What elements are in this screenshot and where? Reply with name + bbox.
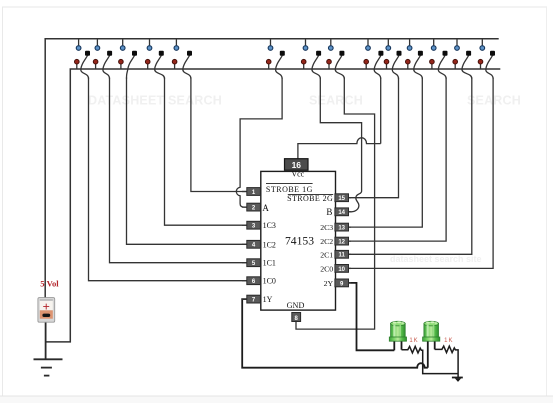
svg-text:1C3: 1C3 — [263, 221, 276, 230]
svg-text:1C2: 1C2 — [263, 240, 276, 249]
svg-text:12: 12 — [338, 240, 345, 246]
svg-text:16: 16 — [292, 160, 302, 170]
svg-text:1K: 1K — [409, 338, 418, 344]
svg-text:GND: GND — [287, 301, 305, 310]
svg-text:B: B — [326, 207, 332, 217]
svg-text:11: 11 — [339, 253, 346, 259]
svg-text:SEARCH: SEARCH — [309, 94, 363, 108]
svg-text:5 Vol: 5 Vol — [40, 278, 59, 288]
svg-text:15: 15 — [338, 196, 345, 202]
svg-text:2C1: 2C1 — [320, 250, 333, 259]
svg-text:2C2: 2C2 — [320, 237, 333, 246]
svg-text:STROBE 1G: STROBE 1G — [266, 185, 313, 194]
svg-text:SEARCH: SEARCH — [467, 94, 521, 108]
svg-text:2C0: 2C0 — [320, 264, 333, 273]
svg-text:1K: 1K — [444, 338, 453, 344]
svg-text:2C3: 2C3 — [320, 223, 333, 232]
svg-text:A: A — [262, 203, 269, 213]
svg-text:1Y: 1Y — [263, 295, 273, 304]
svg-text:14: 14 — [338, 210, 345, 216]
svg-text:Vcc: Vcc — [291, 169, 304, 178]
svg-text:+: + — [42, 299, 49, 314]
svg-text:74153: 74153 — [285, 234, 314, 247]
svg-text:2Y: 2Y — [324, 279, 334, 288]
svg-text:DATASHEET SEARCH: DATASHEET SEARCH — [88, 94, 222, 108]
svg-text:datasheet search site: datasheet search site — [390, 254, 482, 264]
svg-text:13: 13 — [338, 226, 345, 232]
svg-text:10: 10 — [338, 267, 345, 273]
svg-text:1C1: 1C1 — [263, 259, 276, 268]
svg-text:1C0: 1C0 — [263, 277, 276, 286]
svg-text:STROBE 2G: STROBE 2G — [287, 194, 333, 203]
